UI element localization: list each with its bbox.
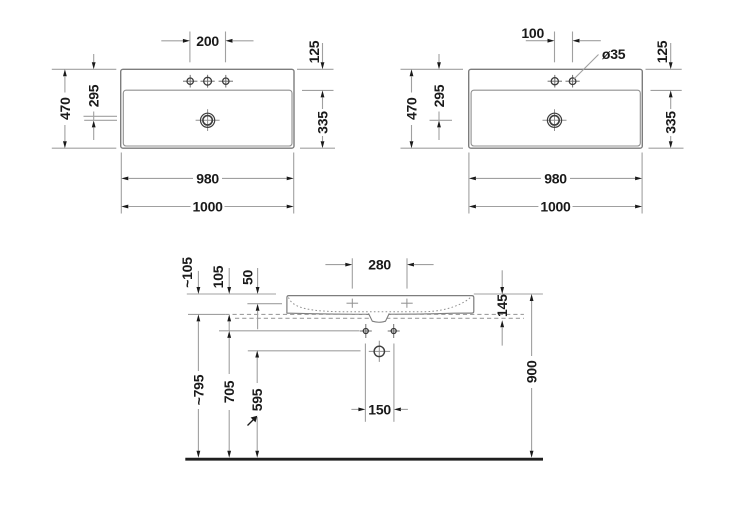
faucet hole centre (plan left): [201, 75, 215, 88]
dimension 1000 (plan left): [121, 199, 293, 215]
dimension 100 (plan right): [521, 25, 600, 63]
fixing holes line (elevation): [219, 330, 359, 332]
faucet hole 35mm (plan right): [566, 75, 580, 88]
faucet hole centre (plan right): [548, 75, 562, 88]
drain height line (elevation): [248, 350, 361, 352]
svg-text:~795: ~795: [190, 374, 206, 405]
basin inner bowl plan left: [123, 90, 292, 146]
dimension 295 (plan left): [84, 54, 118, 140]
adjustability arrow (elevation): [248, 416, 258, 426]
svg-text:200: 200: [196, 33, 219, 49]
svg-text:125: 125: [306, 40, 322, 63]
svg-text:105: 105: [210, 265, 226, 288]
faucet hole left (plan left): [183, 75, 197, 88]
svg-text:145: 145: [494, 294, 510, 317]
dimension 200 (plan left): [161, 32, 253, 63]
label diameter 35 with leader: [574, 46, 625, 78]
dimension 470 (plan left): [52, 69, 117, 148]
floor line: [185, 458, 543, 461]
svg-text:705: 705: [221, 380, 237, 403]
dimension 470 (plan right): [401, 69, 464, 148]
svg-text:150: 150: [368, 401, 391, 417]
rim extension line left (elevation): [187, 293, 276, 295]
svg-text:470: 470: [57, 97, 73, 120]
drain (plan left): [196, 109, 220, 131]
dimension 980 (plan right): [469, 153, 642, 214]
faucet hole right (plan left): [219, 75, 233, 88]
basin inner bowl plan right: [471, 90, 640, 146]
dimension 295 (plan right): [430, 54, 453, 140]
drain (plan right): [543, 109, 567, 131]
svg-text:595: 595: [249, 388, 265, 411]
svg-text:1000: 1000: [540, 199, 571, 215]
wall hidden line A (dashed): [188, 313, 524, 315]
svg-text:980: 980: [544, 170, 567, 186]
dimension 145 (elevation): [494, 270, 510, 345]
dimension 1000 (plan right): [469, 199, 642, 215]
basin outline plan right: [469, 69, 643, 148]
svg-text:980: 980: [196, 170, 219, 186]
fixing hole left (elevation): [360, 324, 372, 338]
dimension ~795 (elevation): [190, 314, 206, 457]
dimension 105 (elevation): [210, 265, 231, 321]
svg-text:295: 295: [86, 84, 102, 107]
dimension 150 (elevation): [351, 344, 408, 422]
svg-text:1000: 1000: [193, 199, 224, 215]
svg-text:900: 900: [524, 360, 540, 383]
faucet cross left (elevation): [347, 299, 359, 308]
dimension 705 (elevation): [221, 321, 237, 457]
svg-text:125: 125: [654, 40, 670, 63]
dimension 125 (plan left): [297, 40, 334, 90]
fixing hole right (elevation): [388, 324, 400, 338]
dimension ~105 (elevation): [179, 257, 200, 294]
dimension 595 (elevation): [249, 351, 265, 458]
dimension 335 (plan right): [649, 90, 684, 148]
rim extension line right (elevation): [474, 293, 543, 295]
faucet cross right (elevation): [401, 299, 413, 308]
dimension 900 (elevation): [524, 294, 540, 458]
basin body (elevation): [287, 296, 474, 315]
drain trap (elevation): [369, 313, 390, 322]
svg-text:50: 50: [240, 270, 256, 286]
svg-text:295: 295: [431, 84, 447, 107]
dimension 980 (plan left): [121, 153, 293, 214]
dimension 50 (elevation): [240, 268, 283, 329]
hidden bowl contour (elevation): [289, 297, 472, 312]
svg-text:ø35: ø35: [602, 46, 626, 62]
basin outline plan left: [121, 69, 294, 148]
svg-text:335: 335: [315, 111, 331, 134]
wall hidden line B (dashed): [235, 317, 524, 319]
svg-text:100: 100: [521, 25, 544, 41]
svg-text:335: 335: [663, 111, 679, 134]
dimension 280 (elevation): [325, 257, 433, 289]
svg-text:470: 470: [404, 97, 420, 120]
svg-text:280: 280: [368, 257, 391, 273]
dimension 335 (plan left): [300, 90, 335, 148]
svg-text:~105: ~105: [179, 257, 195, 288]
dimension 125 (plan right): [646, 40, 682, 90]
siphon outlet circle (elevation): [369, 341, 390, 362]
